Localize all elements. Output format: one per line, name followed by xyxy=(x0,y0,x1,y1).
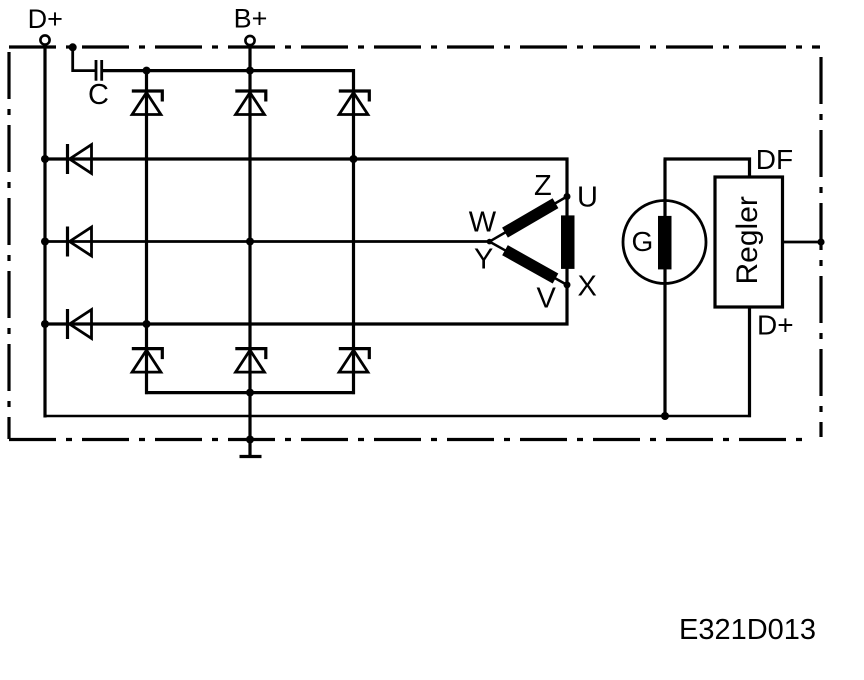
junction: housing boundary / regulator xyxy=(817,238,824,245)
wire: rotor feed (vertical through G) xyxy=(663,159,666,417)
junction: rail / column 1 xyxy=(143,67,151,75)
wire: bridge column 2 (B+ bus to ground) xyxy=(248,46,251,440)
wire: tap down to capacitor xyxy=(73,47,95,70)
exciter diode D6 (column 3 top) xyxy=(339,91,370,115)
terminal B+ (top) xyxy=(234,4,268,46)
diode D3 (row 3, cathode left) xyxy=(68,309,92,339)
wire: D+ vertical bus (left) xyxy=(43,46,46,418)
svg-text:E321D013: E321D013 xyxy=(679,614,816,646)
wire: lower bus under bridge xyxy=(145,391,355,394)
stator winding U-X (vertical) xyxy=(561,215,575,269)
junction: row 3 / column 1 xyxy=(143,320,151,328)
wire: rotor top to regulator DF xyxy=(664,159,750,178)
rotor G (slip-ring rotor circle) xyxy=(623,201,706,284)
stator winding Y-V (lower diagonal) xyxy=(490,242,568,285)
junction: D+ bus / phase row 1 xyxy=(41,155,49,163)
ground symbol xyxy=(240,440,262,457)
rotor field winding bar xyxy=(658,216,672,270)
exciter diode D5 (column 2 top) xyxy=(235,91,265,115)
junction: row 1 / column 3 xyxy=(350,155,358,163)
diode D2 (row 2, cathode left) xyxy=(68,227,92,257)
terminal D+ (top) xyxy=(28,4,63,45)
stator winding W-Z (upper diagonal) xyxy=(490,197,568,242)
diode D9 (column 3 bottom) xyxy=(339,349,370,373)
svg-text:DF: DF xyxy=(756,144,793,175)
wire: phase row 2 xyxy=(45,240,489,243)
svg-text:V: V xyxy=(537,283,557,315)
svg-text:X: X xyxy=(578,271,597,303)
regulator box (Regler) U1 xyxy=(715,177,783,307)
junction: housing boundary tap to capacitor xyxy=(69,43,77,51)
diode D1 (row 1, cathode left) xyxy=(68,144,92,174)
svg-text:C: C xyxy=(88,79,109,111)
wire: bridge column 1 xyxy=(145,71,148,395)
wire: phase row 3 (stator box bottom) xyxy=(45,322,569,325)
svg-text:W: W xyxy=(469,207,497,239)
svg-text:B+: B+ xyxy=(234,4,268,34)
svg-text:Y: Y xyxy=(474,244,493,276)
junction: D+ bus / phase row 2 xyxy=(41,238,49,246)
node X xyxy=(564,281,571,288)
wire: stator box right edge xyxy=(565,158,568,326)
junction: row 2 / column 2 xyxy=(246,238,254,246)
node U xyxy=(564,193,571,200)
junction: rail / column 2 (B+) xyxy=(246,67,254,75)
wire: regulator to housing (D-) xyxy=(783,241,822,244)
svg-text:Z: Z xyxy=(534,170,552,202)
junction: lower bus / column 2 xyxy=(246,389,254,397)
capacitor C xyxy=(88,60,109,111)
svg-text:U: U xyxy=(577,182,598,214)
node W/Y (delta apex) xyxy=(487,239,493,245)
wire: regulator D+ lead (down from box) xyxy=(748,307,751,417)
svg-text:D+: D+ xyxy=(757,309,794,340)
alternator housing boundary (dash-dot frame) xyxy=(9,47,821,440)
svg-text:D+: D+ xyxy=(28,4,63,34)
diode D7 (column 1 bottom) xyxy=(132,349,163,373)
wire: capacitor to exciter-diode rail xyxy=(103,69,355,72)
wire: phase row 1 (stator box top) xyxy=(45,157,569,160)
wire: bridge column 3 xyxy=(352,69,355,394)
wire: bottom return rail xyxy=(44,415,752,418)
junction: ground tap on housing boundary xyxy=(246,436,254,444)
junction: rotor return / bottom rail xyxy=(661,412,669,420)
svg-text:G: G xyxy=(632,226,654,257)
diode D8 (column 2 bottom) xyxy=(235,349,265,373)
svg-text:Regler: Regler xyxy=(731,196,764,284)
junction: D+ bus / phase row 3 xyxy=(41,320,49,328)
exciter diode D4 (column 1 top) xyxy=(132,91,163,115)
